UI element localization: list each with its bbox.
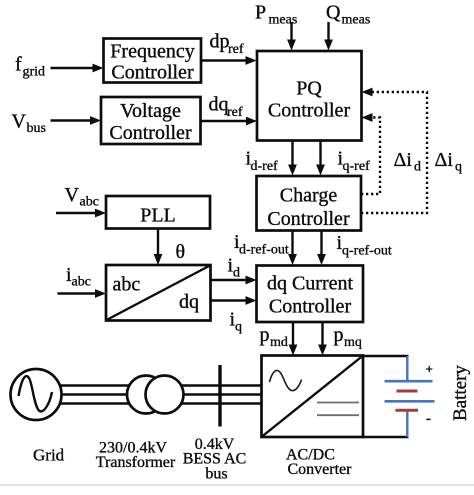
svg-text:d: d: [414, 160, 421, 175]
node Q_meas label: [326, 2, 370, 28]
wire f_grid arrow into Frequency Controller: [51, 64, 104, 73]
svg-text:Δi: Δi: [394, 149, 413, 171]
node i_d label: [228, 255, 241, 281]
node p_md label: [260, 324, 288, 350]
wire V_bus arrow into Voltage Controller: [51, 116, 102, 125]
node dp_ref label: [210, 31, 244, 58]
source Grid circle: [11, 369, 62, 420]
svg-text:θ: θ: [176, 241, 186, 263]
svg-text:bus: bus: [205, 466, 227, 483]
svg-text:mq: mq: [344, 335, 362, 350]
svg-text:q: q: [455, 160, 462, 175]
wire converter to battery top: [363, 355, 409, 357]
wire V_abc arrow into PLL: [56, 209, 106, 218]
node P_meas label: [255, 2, 297, 28]
wire i_d-ref arrow PQ to Charge Controller: [288, 141, 297, 176]
wire P_meas arrow into PQ Controller: [287, 22, 296, 51]
svg-text:abc: abc: [113, 274, 141, 296]
wire dotted feedback outer: Charge Controller to PQ (delta i_q): [361, 92, 427, 213]
svg-text:Charge: Charge: [280, 185, 338, 207]
wire dp_ref arrow Frequency Controller to PQ Controller: [201, 56, 257, 65]
svg-text:q: q: [235, 320, 242, 335]
node delta i_d label: [394, 149, 422, 175]
svg-text:p: p: [260, 324, 270, 346]
svg-text:Voltage: Voltage: [120, 100, 181, 122]
svg-text:md: md: [270, 335, 288, 350]
node i_d-ref-out label: [234, 231, 289, 258]
wire i_abc arrow into abc-dq block: [58, 289, 107, 298]
node dq_ref label: [209, 94, 243, 121]
node i_d-ref label: [246, 148, 279, 175]
svg-text:V: V: [12, 111, 27, 133]
node BESS AC bus bar: [218, 365, 221, 427]
svg-text:ref: ref: [227, 105, 243, 120]
wire dq_ref arrow Voltage Controller to PQ Controller: [201, 117, 258, 126]
svg-text:Converter: Converter: [288, 461, 353, 478]
svg-text:Q: Q: [326, 2, 341, 24]
svg-text:Controller: Controller: [269, 296, 352, 318]
node i_abc label: [66, 264, 91, 290]
svg-text:dq: dq: [209, 94, 229, 116]
svg-text:PQ: PQ: [296, 78, 322, 100]
wire theta arrow PLL to abc-dq block: [154, 229, 163, 266]
wire i_d-ref-out arrow Charge to dq Current Controller: [288, 231, 297, 266]
node i_q-ref label: [338, 148, 371, 175]
wire dotted feedback inner: Charge Controller to PQ (delta i_d): [361, 118, 380, 195]
block abc to dq transform: [106, 265, 211, 321]
svg-text:q-ref: q-ref: [343, 159, 371, 174]
svg-text:p: p: [334, 324, 344, 346]
svg-text:PLL: PLL: [140, 205, 176, 227]
svg-text:q-ref-out: q-ref-out: [342, 244, 392, 259]
svg-text:Battery: Battery: [450, 365, 471, 421]
svg-text:Controller: Controller: [109, 122, 192, 144]
node V_bus label: [12, 111, 46, 137]
svg-text:bus: bus: [27, 121, 46, 136]
svg-text:Δi: Δi: [435, 149, 454, 171]
arrowhead dotted outer into PQ: [362, 88, 373, 97]
wire converter to battery bottom: [363, 436, 409, 438]
wire Q_meas arrow into PQ Controller: [324, 22, 333, 51]
wire p_md arrow dq Current Controller to converter: [289, 322, 298, 356]
svg-text:Controller: Controller: [111, 62, 194, 84]
wire i_q-ref arrow PQ to Charge Controller: [316, 141, 325, 176]
transformer T1 (two overlapping circles): [127, 376, 184, 414]
node delta i_q label: [435, 149, 463, 175]
svg-text:f: f: [15, 54, 22, 76]
block Frequency Controller: [104, 39, 202, 84]
node i_q label: [230, 309, 243, 335]
svg-text:abc: abc: [72, 275, 91, 290]
wire p_mq arrow dq Current Controller to converter: [318, 322, 327, 356]
svg-text:-: -: [426, 411, 431, 427]
wire three-phase line middle: [61, 393, 262, 395]
svg-text:d-ref: d-ref: [251, 159, 279, 174]
wire three-phase line bottom: [61, 402, 262, 404]
wire i_q-ref-out arrow Charge to dq Current Controller: [317, 231, 326, 266]
svg-text:meas: meas: [342, 13, 371, 28]
svg-text:d: d: [233, 266, 240, 281]
arrowhead dotted inner into PQ: [362, 113, 373, 122]
svg-text:grid: grid: [23, 65, 46, 80]
svg-text:Controller: Controller: [267, 208, 350, 230]
svg-text:V: V: [65, 184, 80, 206]
node p_mq label: [334, 324, 362, 350]
svg-text:dp: dp: [210, 31, 230, 53]
svg-text:d-ref-out: d-ref-out: [239, 243, 289, 258]
svg-text:+: +: [426, 362, 433, 377]
svg-text:ref: ref: [228, 42, 244, 57]
converter AC/DC block: [262, 356, 364, 438]
svg-text:Grid: Grid: [33, 446, 65, 465]
wire i_q arrow abc-dq to dq Current Controller: [211, 296, 257, 305]
block Charge Controller: [257, 176, 362, 231]
svg-text:meas: meas: [269, 13, 298, 28]
block Voltage Controller: [101, 97, 201, 144]
wire three-phase line top: [61, 384, 262, 386]
svg-text:Frequency: Frequency: [110, 41, 194, 63]
svg-text:dq Current: dq Current: [267, 273, 354, 295]
scan artifact gray line at bottom: [0, 484, 474, 486]
node f_grid label: [15, 54, 45, 80]
node V_abc label: [65, 184, 99, 210]
block PQ Controller: [257, 51, 362, 141]
svg-text:Controller: Controller: [268, 100, 351, 122]
node i_q-ref-out label: [337, 232, 392, 259]
svg-text:dq: dq: [179, 291, 199, 313]
svg-text:Transformer: Transformer: [96, 454, 176, 471]
battery B1: [385, 356, 435, 437]
wire i_d arrow abc-dq to dq Current Controller: [211, 276, 257, 285]
svg-text:P: P: [255, 2, 266, 24]
block PLL: [106, 196, 210, 229]
block dq Current Controller: [257, 266, 364, 323]
svg-text:abc: abc: [80, 195, 99, 210]
